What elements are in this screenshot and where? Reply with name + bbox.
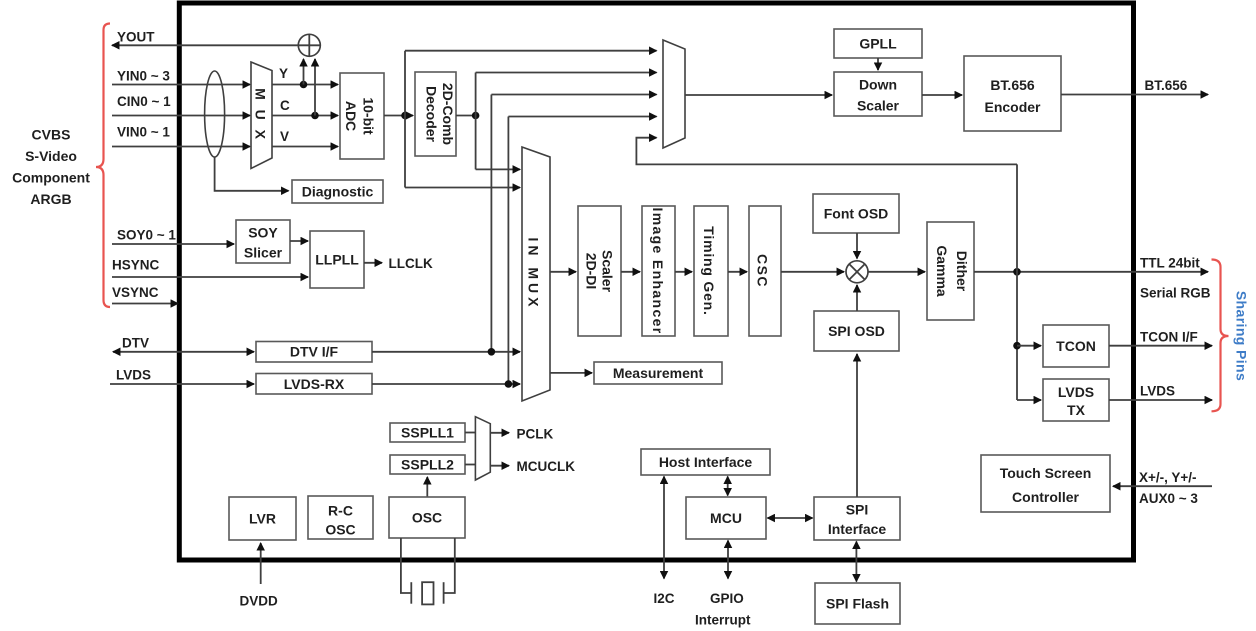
svg-text:I2C: I2C <box>654 591 675 606</box>
svg-text:OSC: OSC <box>325 522 355 538</box>
block Scaler 2D-DI <box>578 206 621 336</box>
node TCON junction <box>1013 342 1021 350</box>
block Measurement <box>594 362 722 384</box>
svg-text:C: C <box>280 98 290 113</box>
wire LVDS output <box>1109 399 1212 401</box>
svg-text:YIN0 ~ 3: YIN0 ~ 3 <box>117 69 170 84</box>
node DTV output junction <box>488 348 496 356</box>
svg-text:Controller: Controller <box>1012 489 1079 505</box>
wire SPI Interface to SPI OSD <box>856 354 858 497</box>
block Host Interface <box>641 449 770 475</box>
svg-text:LVDS: LVDS <box>1058 384 1094 400</box>
chip boundary <box>179 3 1133 560</box>
wire Timing Gen to CSC <box>728 271 747 273</box>
wire YOUT output <box>112 44 299 46</box>
wire LVDS-RX output to IN MUX input 4 <box>372 383 520 385</box>
wire DTV I/F to big mux input 3 <box>491 94 656 96</box>
svg-text:GPIO: GPIO <box>710 591 744 606</box>
svg-text:Down: Down <box>859 77 897 93</box>
svg-text:M U X: M U X <box>253 88 269 142</box>
wire OSC to SSPLL2 <box>426 477 428 497</box>
block MCU <box>686 497 766 539</box>
svg-text:Touch Screen: Touch Screen <box>1000 465 1092 481</box>
wire DTV I/F output to IN MUX input 3 <box>372 351 520 353</box>
svg-text:Interface: Interface <box>828 521 887 537</box>
svg-text:GPLL: GPLL <box>859 36 897 52</box>
block LVR <box>229 497 296 540</box>
svg-text:10-bitADC: 10-bitADC <box>343 97 377 135</box>
svg-text:Image Enhancer: Image Enhancer <box>650 207 666 334</box>
svg-text:BT.656: BT.656 <box>990 77 1035 93</box>
block Diagnostic <box>292 180 383 203</box>
block ADC 10-bit <box>340 73 384 159</box>
svg-text:DTV I/F: DTV I/F <box>290 344 339 360</box>
svg-text:LVDS: LVDS <box>116 368 151 383</box>
wire SPI Interface to SPI Flash bidirectional <box>855 542 857 582</box>
svg-text:LVDS-RX: LVDS-RX <box>284 376 345 392</box>
svg-text:DVDD: DVDD <box>240 594 279 609</box>
wire display feedback to big mux input 5 <box>636 138 1017 165</box>
svg-text:S-Video: S-Video <box>25 148 77 164</box>
svg-text:Scaler2D-DI: Scaler2D-DI <box>583 250 615 293</box>
block R-C OSC <box>308 496 373 539</box>
svg-text:CIN0 ~ 1: CIN0 ~ 1 <box>117 94 171 109</box>
node 2D-Comb output junction <box>472 112 480 120</box>
block SSPLL2 <box>390 455 465 474</box>
wire I2C bidirectional <box>663 477 665 579</box>
block OSC <box>389 497 465 538</box>
block SPI Interface <box>814 497 900 540</box>
block GPLL <box>834 29 922 58</box>
wire ADC output to IN MUX input 2 <box>405 187 520 189</box>
wire mixer to Dither Gamma <box>868 271 925 273</box>
svg-text:Diagnostic: Diagnostic <box>302 184 374 200</box>
svg-text:TCON I/F: TCON I/F <box>1140 330 1198 345</box>
svg-text:Serial RGB: Serial RGB <box>1140 286 1211 301</box>
wire SSPLL1 to clock mux <box>465 432 476 434</box>
wire CSC to OSD mixer <box>781 271 844 273</box>
wire crystal right leg <box>444 538 455 593</box>
svg-text:Scaler: Scaler <box>857 98 900 114</box>
block SSPLL1 <box>390 423 465 442</box>
svg-text:OSC: OSC <box>412 510 442 526</box>
wire GPLL to Down Scaler <box>877 58 879 70</box>
wire Dither Gamma output / TTL RGB out <box>974 271 1208 273</box>
svg-text:MCUCLK: MCUCLK <box>517 459 576 474</box>
wire ADC output to big mux input 1 <box>405 50 657 52</box>
wire Image Enhancer to Timing Gen <box>675 271 692 273</box>
svg-text:YOUT: YOUT <box>117 30 155 45</box>
svg-text:VSYNC: VSYNC <box>112 285 159 300</box>
block SPI Flash <box>815 583 900 624</box>
svg-text:Slicer: Slicer <box>244 245 283 261</box>
wire LVDS-RX vertical riser <box>507 117 509 385</box>
wire Y (MUX to ADC) <box>272 84 338 86</box>
wire 2D-Comb to IN MUX input 1 <box>476 168 520 170</box>
wire to TCON input <box>1017 345 1041 347</box>
svg-text:PCLK: PCLK <box>517 427 554 442</box>
wire C (MUX to ADC) <box>272 115 338 117</box>
wire IN MUX to Scaler <box>550 271 576 273</box>
wire ADC output to 2D-Comb <box>384 115 413 117</box>
block Font OSD <box>813 194 899 233</box>
wire VSYNC input <box>112 303 178 305</box>
svg-text:CVBS: CVBS <box>32 127 71 143</box>
svg-text:TX: TX <box>1067 402 1086 418</box>
node display output junction <box>1013 268 1021 276</box>
wire DTV I/F vertical riser <box>490 95 492 352</box>
wire VIN0~1 input <box>112 146 250 148</box>
wire 2D-Comb to big mux input 2 <box>476 72 657 74</box>
wire SOY Slicer to LLPLL <box>290 240 308 242</box>
svg-text:LLPLL: LLPLL <box>315 252 359 268</box>
block DTV I/F <box>256 342 372 363</box>
node ADC output junction <box>401 112 409 120</box>
wire TCON I/F output <box>1109 345 1212 347</box>
svg-text:SPI Flash: SPI Flash <box>826 596 889 612</box>
svg-text:R-C: R-C <box>328 503 353 519</box>
svg-text:Y: Y <box>279 66 288 81</box>
wire DVDD to LVR <box>260 543 262 584</box>
svg-text:Host Interface: Host Interface <box>659 454 753 470</box>
wire Y line up to adder <box>303 59 305 85</box>
svg-text:SOY: SOY <box>248 225 278 241</box>
svg-text:CSC: CSC <box>755 254 771 288</box>
wire LVDS-RX to big mux input 4 <box>508 116 656 118</box>
svg-text:SOY0 ~ 1: SOY0 ~ 1 <box>117 228 176 243</box>
wire YIN0~3 input <box>112 84 250 86</box>
summing node (circle with plus) <box>298 34 320 56</box>
block Touch Screen Controller <box>981 455 1110 512</box>
svg-text:LVDS: LVDS <box>1140 384 1175 399</box>
block LLPLL <box>310 231 364 288</box>
svg-text:V: V <box>280 129 289 144</box>
wire SPI OSD to mixer <box>856 285 858 311</box>
mux IN MUX <box>522 147 550 401</box>
wire C line up to adder <box>314 59 316 116</box>
block Timing Gen. <box>694 206 728 336</box>
wire MCUCLK output <box>490 465 509 467</box>
svg-text:LVR: LVR <box>249 511 276 527</box>
svg-text:TTL 24bit: TTL 24bit <box>1140 256 1200 271</box>
mux MUX (CVBS input) <box>251 62 272 169</box>
wire LLCLK output <box>364 262 382 264</box>
svg-text:BT.656: BT.656 <box>1145 78 1188 93</box>
block BT.656 Encoder <box>964 56 1061 131</box>
svg-text:Encoder: Encoder <box>984 99 1041 115</box>
block SPI OSD <box>814 311 899 351</box>
svg-text:HSYNC: HSYNC <box>112 258 160 273</box>
wire crystal left leg <box>401 538 411 593</box>
svg-text:TCON: TCON <box>1056 338 1096 354</box>
svg-text:X+/-, Y+/-: X+/-, Y+/- <box>1139 470 1197 485</box>
svg-text:DTV: DTV <box>122 336 149 351</box>
wire Host Interface to MCU bidirectional <box>727 477 729 496</box>
node C junction <box>311 112 319 120</box>
block 2D-Comb Decoder <box>415 72 456 156</box>
svg-text:ARGB: ARGB <box>30 191 71 207</box>
svg-text:SPI OSD: SPI OSD <box>828 323 885 339</box>
svg-text:AUX0 ~ 3: AUX0 ~ 3 <box>1139 491 1198 506</box>
crystal X1 body <box>422 582 433 604</box>
block SOY Slicer <box>236 220 290 263</box>
wire CIN0~1 input <box>112 115 250 117</box>
wire 2D-Comb output stub <box>456 115 476 117</box>
node Y junction <box>300 81 308 89</box>
wire GPIO bidirectional <box>727 541 729 579</box>
crystal left plate <box>410 582 412 604</box>
svg-text:IN MUX: IN MUX <box>525 238 541 311</box>
crystal right plate <box>443 582 445 604</box>
wire LVDS input <box>110 383 254 385</box>
block CSC <box>749 206 781 336</box>
svg-text:Interrupt: Interrupt <box>695 613 751 628</box>
mux clock mux <box>475 417 490 480</box>
wire big mux to Down Scaler <box>685 94 832 96</box>
wire display output vertical bus <box>1016 164 1018 400</box>
wire Scaler to Image Enhancer <box>621 271 640 273</box>
block Image Enhancer <box>642 206 675 336</box>
svg-text:Font OSD: Font OSD <box>824 206 889 222</box>
wire HSYNC input <box>112 276 308 278</box>
mux output select (big mux) <box>663 40 685 148</box>
svg-text:Timing Gen.: Timing Gen. <box>701 226 717 315</box>
block LVDS TX <box>1043 379 1109 421</box>
wire to LVDS TX input <box>1017 399 1041 401</box>
wire Font OSD to mixer <box>856 233 858 259</box>
svg-text:SPI: SPI <box>846 502 869 518</box>
svg-text:Sharing Pins: Sharing Pins <box>1234 291 1250 381</box>
wire Down Scaler to BT.656 Encoder <box>922 94 962 96</box>
svg-text:Component: Component <box>12 170 90 186</box>
wire BT.656 output <box>1061 94 1208 96</box>
wire SSPLL2 to clock mux <box>465 464 476 466</box>
wire IN MUX to Measurement <box>550 372 592 374</box>
wire 2D-Comb vertical riser <box>475 73 477 170</box>
block Dither Gamma <box>927 222 974 320</box>
block TCON <box>1043 325 1109 367</box>
wire ellipse to Diagnostic <box>215 157 289 191</box>
block LVDS-RX <box>256 374 372 395</box>
svg-text:2D-CombDecoder: 2D-CombDecoder <box>424 83 456 145</box>
svg-text:LLCLK: LLCLK <box>389 256 433 271</box>
svg-text:MCU: MCU <box>710 510 742 526</box>
svg-text:Measurement: Measurement <box>613 365 704 381</box>
input source ellipse <box>205 71 225 157</box>
wire PCLK output <box>490 432 509 434</box>
wire ADC output vertical riser <box>404 51 406 188</box>
block Down Scaler <box>834 72 922 116</box>
wire DTV bidirectional <box>113 351 254 353</box>
svg-text:VIN0 ~ 1: VIN0 ~ 1 <box>117 125 170 140</box>
left brace CVBS group (red) <box>96 24 110 308</box>
wire SOY0~1 input <box>112 243 234 245</box>
right brace Sharing Pins (red) <box>1212 260 1229 412</box>
node LVDS-RX output junction <box>505 380 513 388</box>
wire MCU to SPI Interface bidirectional <box>768 517 813 519</box>
svg-text:SSPLL1: SSPLL1 <box>401 425 454 441</box>
OSD mixer node (circle with X) <box>846 261 868 283</box>
wire V (MUX to ADC) <box>272 146 338 148</box>
svg-text:SSPLL2: SSPLL2 <box>401 457 454 473</box>
wire touch inputs <box>1113 485 1212 487</box>
